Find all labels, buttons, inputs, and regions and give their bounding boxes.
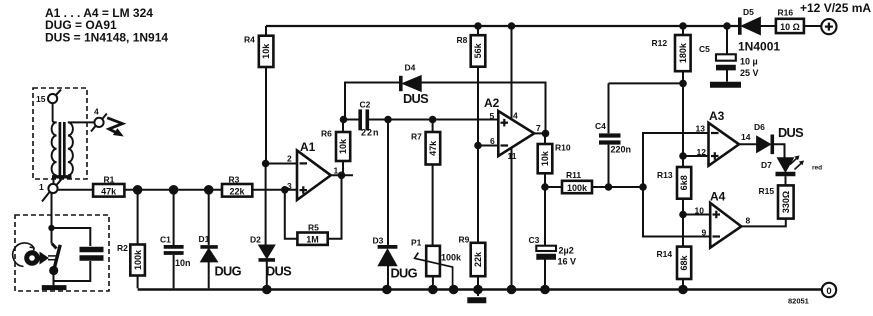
resistor R8 [457, 22, 486, 243]
svg-text:68k: 68k [679, 255, 689, 271]
svg-text:DUS = 1N4148, 1N914: DUS = 1N4148, 1N914 [45, 31, 168, 45]
svg-text:100k: 100k [441, 253, 462, 263]
resistor R9 [459, 234, 486, 296]
capacitor C3 [529, 235, 577, 288]
svg-text:C4: C4 [595, 121, 606, 131]
svg-text:DUS: DUS [778, 125, 804, 140]
resistor R15 [741, 185, 793, 226]
capacitor C1 [160, 190, 191, 288]
node D3 tap [384, 116, 392, 124]
wire pin10 [683, 214, 710, 216]
svg-text:100k: 100k [567, 183, 588, 193]
capacitor C5 [699, 26, 759, 85]
svg-text:DUG: DUG [391, 266, 418, 281]
diode D4 [345, 63, 546, 134]
node pin11 ground [507, 285, 517, 295]
svg-text:D1: D1 [199, 234, 210, 244]
node D1 [204, 185, 214, 195]
wire coil to terminal 4 [68, 121, 95, 123]
svg-text:D5: D5 [743, 7, 754, 17]
resistor R3 [222, 175, 252, 197]
node P1 wiper ground [449, 285, 459, 295]
node D2 ground [262, 285, 272, 295]
terminal 1 [39, 180, 61, 202]
svg-text:10k: 10k [261, 43, 271, 59]
svg-text:R4: R4 [244, 35, 255, 45]
svg-text:14: 14 [741, 132, 751, 142]
node A1 pin2 [262, 160, 270, 168]
svg-text:5: 5 [490, 111, 495, 121]
svg-text:DUS: DUS [403, 91, 429, 106]
svg-text:220n: 220n [611, 145, 632, 155]
dashed box transformer [33, 88, 87, 179]
resistor R11 [545, 170, 643, 193]
svg-text:47k: 47k [101, 186, 117, 196]
LED D7 [761, 156, 822, 186]
zigzag arrow [107, 118, 124, 137]
svg-text:D7: D7 [761, 160, 772, 170]
svg-text:10n: 10n [175, 258, 191, 268]
svg-text:A1: A1 [300, 140, 316, 154]
svg-text:R14: R14 [657, 249, 673, 259]
terminal +12V [800, 1, 871, 34]
wire to A3 pin13 [643, 133, 709, 187]
node comparator input [639, 183, 647, 191]
diode D1 [199, 190, 242, 288]
resistor R13 [657, 167, 691, 247]
resistor R7 [411, 120, 440, 246]
resistor R2 [117, 190, 145, 288]
wire pin2 [266, 163, 297, 165]
node pickup [48, 225, 54, 231]
svg-text:2µ2: 2µ2 [559, 246, 574, 256]
svg-text:1M: 1M [306, 235, 319, 245]
node C1 [169, 185, 179, 195]
resistor R5 [285, 175, 342, 245]
svg-text:100k: 100k [133, 249, 143, 270]
svg-text:+12 V/25 mA: +12 V/25 mA [800, 1, 871, 15]
node P1 ground [428, 285, 438, 295]
svg-text:7: 7 [536, 123, 541, 133]
svg-text:C1: C1 [160, 235, 171, 245]
diode D3 [373, 120, 418, 289]
svg-text:22k: 22k [473, 251, 483, 267]
wire pin4 [511, 26, 513, 120]
node R5 tap [281, 186, 289, 194]
resistor R14 [657, 247, 692, 289]
resistor R6 [321, 120, 350, 176]
svg-text:C2: C2 [360, 100, 371, 110]
svg-text:R16: R16 [778, 8, 794, 18]
actuator [13, 243, 58, 267]
svg-text:10k: 10k [540, 150, 550, 166]
svg-text:R2: R2 [117, 243, 128, 253]
wire T1 to R1 [58, 189, 94, 191]
op-amp A4 [695, 190, 751, 248]
terminal 0 out [788, 283, 836, 306]
node R6/C2/D4 [340, 116, 348, 124]
node C5 rail [723, 22, 731, 30]
wire A1 output [331, 174, 353, 176]
svg-text:12: 12 [697, 147, 707, 157]
node A2 out [542, 130, 550, 138]
svg-text:R13: R13 [657, 170, 673, 180]
node A3 pin12 [679, 152, 687, 160]
wire A3 output to D6 [739, 143, 757, 145]
wire R1 to R3 [124, 189, 222, 191]
svg-text:R5: R5 [308, 223, 319, 233]
diode D5 [738, 7, 780, 54]
node C3 ground [540, 285, 550, 295]
dashed box pickup [15, 215, 109, 291]
svg-text:D4: D4 [405, 63, 416, 73]
node R9 ground [473, 285, 483, 295]
potentiometer P1 [411, 238, 462, 289]
svg-text:22n: 22n [361, 128, 380, 138]
node R10/R11/C3 [541, 183, 549, 191]
capacitor pickup [54, 250, 104, 282]
wire terminal1 down [51, 193, 53, 228]
wire A2 output [534, 132, 545, 134]
top rail (V+) [266, 25, 738, 27]
svg-text:R8: R8 [457, 35, 468, 45]
svg-text:3: 3 [287, 181, 292, 191]
node A2 pin4 rail [508, 22, 516, 30]
svg-text:R6: R6 [321, 129, 332, 139]
wire pin11 [511, 148, 513, 289]
svg-text:R11: R11 [566, 170, 581, 180]
node C4/R11 [605, 183, 613, 191]
svg-text:10k: 10k [338, 138, 348, 154]
op-amp A3 [696, 109, 751, 166]
svg-text:6: 6 [490, 136, 495, 146]
resistor R1 [93, 175, 124, 197]
resistor R4 [244, 26, 273, 164]
svg-text:47k: 47k [428, 140, 438, 156]
svg-text:1: 1 [39, 182, 44, 192]
terminal 15 [36, 90, 61, 104]
node R14 ground [678, 285, 688, 295]
svg-text:R9: R9 [459, 234, 470, 244]
svg-text:82051: 82051 [788, 297, 809, 306]
node A1 out [338, 172, 346, 180]
switch [42, 228, 67, 288]
node D3 ground [382, 285, 392, 295]
resistor R12 [652, 22, 691, 167]
svg-text:DUG: DUG [215, 264, 242, 279]
svg-text:6k8: 6k8 [679, 175, 689, 190]
wire R3 to A1 pin3 [252, 189, 297, 191]
svg-text:16 V: 16 V [558, 257, 577, 267]
terminal 4 [91, 107, 107, 132]
svg-text:DUS: DUS [266, 264, 292, 279]
svg-text:1N4001: 1N4001 [738, 40, 780, 54]
op-amp A1 [287, 140, 339, 200]
svg-text:A3: A3 [709, 109, 725, 123]
svg-text:red: red [812, 165, 822, 172]
wire C4 top to R12 [609, 82, 684, 84]
ground symbol [467, 297, 486, 303]
svg-text:25 V: 25 V [740, 68, 759, 78]
capacitor C4 [595, 83, 631, 187]
svg-text:0: 0 [826, 286, 831, 297]
svg-text:1: 1 [334, 166, 339, 176]
resistor R16 [776, 8, 821, 34]
wire pin12 [683, 155, 709, 157]
ground rail [138, 288, 822, 291]
node A2 pin6 [474, 142, 482, 150]
capacitor C2 [344, 100, 499, 138]
svg-text:180k: 180k [678, 42, 688, 63]
svg-text:8: 8 [746, 216, 751, 226]
svg-text:10 µ: 10 µ [740, 57, 758, 67]
node R12 lead [679, 80, 687, 88]
svg-text:A4: A4 [710, 190, 726, 204]
svg-text:D2: D2 [250, 235, 261, 245]
node A4 pin10 [679, 211, 687, 219]
svg-text:P1: P1 [411, 238, 422, 248]
diode D6 [754, 122, 804, 158]
wire to A4 pin9 [643, 187, 710, 237]
svg-text:15: 15 [36, 94, 46, 104]
svg-text:D6: D6 [754, 122, 765, 132]
node R7 tap [429, 116, 437, 124]
svg-text:10: 10 [695, 206, 705, 216]
diode D2 [250, 235, 292, 289]
svg-text:R3: R3 [229, 175, 240, 185]
svg-text:330Ω: 330Ω [781, 191, 791, 213]
node R2 [133, 185, 143, 195]
svg-text:R12: R12 [652, 38, 668, 48]
wire to cap [52, 228, 91, 246]
op-amp A2 [484, 96, 541, 161]
wire pin6 [478, 145, 498, 147]
wire R4 node down to D2 [265, 164, 267, 246]
svg-text:C5: C5 [699, 44, 710, 54]
svg-text:10 Ω: 10 Ω [780, 22, 800, 32]
svg-text:22k: 22k [229, 186, 245, 196]
svg-text:R15: R15 [759, 186, 775, 196]
svg-text:4: 4 [513, 111, 518, 121]
svg-text:2: 2 [287, 154, 292, 164]
legend text [45, 6, 168, 45]
svg-text:A2: A2 [484, 96, 500, 110]
svg-text:9: 9 [702, 228, 707, 238]
svg-text:R1: R1 [104, 175, 115, 185]
svg-text:R10: R10 [555, 143, 571, 153]
svg-text:D3: D3 [373, 236, 384, 246]
svg-text:R7: R7 [411, 132, 422, 142]
svg-text:4: 4 [94, 107, 99, 117]
transformer T1 [52, 103, 73, 184]
svg-text:56k: 56k [473, 42, 483, 58]
svg-text:C3: C3 [529, 235, 540, 245]
svg-text:13: 13 [696, 124, 706, 134]
resistor R10 [538, 133, 571, 245]
